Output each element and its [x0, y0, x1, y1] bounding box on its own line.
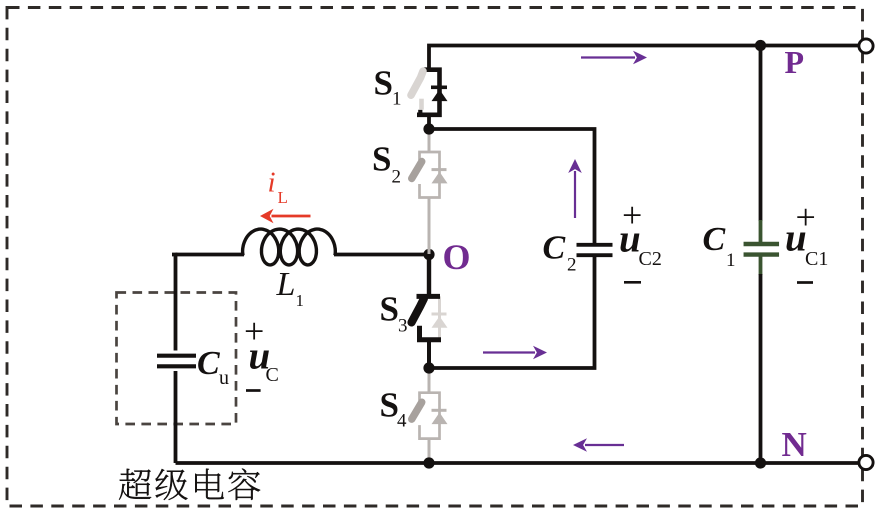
svg-text:i: i — [268, 166, 276, 198]
wire: inductor right lead to node O — [334, 253, 429, 257]
switch S2 (IGBT arm, off) — [420, 152, 440, 198]
svg-text:3: 3 — [398, 316, 408, 337]
wire: inductor left lead — [176, 253, 245, 257]
wire: left branch vertical upper (to Cu) — [172, 255, 176, 351]
wire: gray link overlay at node O — [428, 240, 431, 254]
capacitor C2 plates — [577, 243, 613, 247]
switch S4 (IGBT arm, off) — [420, 393, 440, 439]
node O dot — [423, 249, 434, 260]
junction dot between S3 and S4 — [423, 362, 434, 373]
junction dot bottom bus at C1 — [755, 457, 766, 468]
junction dot bottom bus at S4 — [423, 457, 434, 468]
current arrow top bus (right) — [581, 56, 635, 58]
svg-text:C1: C1 — [805, 248, 828, 270]
wire: junction A to C2 top (horizontal + vertical) — [429, 129, 595, 244]
svg-text:C: C — [197, 345, 220, 382]
wire: gray link S4 to bottom bus — [428, 439, 431, 464]
svg-text:N: N — [782, 425, 807, 464]
svg-text:1: 1 — [296, 291, 305, 310]
capacitor C1 plates — [744, 242, 780, 246]
svg-text:2: 2 — [567, 255, 577, 276]
wire: junction B to C2 bottom (horizontal + vertical) — [429, 255, 595, 368]
inductor current arrow iL (left, red) — [272, 215, 311, 218]
svg-text:u: u — [219, 367, 229, 389]
text 超级电容 (supercapacitor) — [119, 469, 260, 501]
inductor L1 coil — [243, 229, 336, 265]
wire: S1 top to P rail (top bus) — [429, 46, 858, 71]
current arrow bottom bus (left) — [585, 444, 624, 446]
wire: S3 bottom to junction B — [427, 340, 431, 368]
capacitor Cu plates — [157, 354, 196, 358]
junction dot P rail top — [755, 40, 766, 51]
wire: green stem above C1 plates — [759, 220, 763, 244]
svg-text:L: L — [276, 266, 296, 303]
wire: bottom bus (supercap to N terminal) — [176, 461, 859, 465]
svg-text:4: 4 — [397, 411, 407, 432]
wire: gray link S2 to node O — [428, 198, 431, 255]
svg-text:C: C — [703, 221, 726, 258]
switch S1 (IGBT arm, diode conducting) — [417, 70, 440, 115]
svg-text:u: u — [785, 217, 807, 260]
svg-text:2: 2 — [392, 167, 402, 188]
wire: left branch vertical lower (Cu to bottom bus) — [174, 371, 178, 463]
svg-text:C2: C2 — [639, 248, 662, 270]
current arrow C2 branch (up) — [574, 171, 576, 218]
svg-text:u: u — [619, 218, 641, 261]
svg-text:P: P — [785, 44, 805, 80]
svg-text:1: 1 — [392, 89, 402, 110]
svg-text:O: O — [443, 237, 471, 277]
wire: gray link junction A to S2 — [428, 129, 431, 152]
svg-text:S: S — [380, 290, 399, 329]
wire: C1 branch vertical lower (C1 to N) — [759, 274, 763, 463]
junction dot between S1 and S2 — [423, 123, 434, 134]
svg-text:C: C — [266, 364, 279, 386]
svg-text:1: 1 — [726, 250, 736, 271]
wire: green stem below C1 plates — [759, 255, 763, 275]
wire: node O to S3 — [427, 255, 431, 297]
terminal N (open circle) — [859, 455, 873, 469]
dashed supercapacitor box — [117, 293, 237, 425]
svg-text:S: S — [374, 64, 393, 103]
current arrow middle link (right) — [483, 351, 535, 353]
wire: C1 branch vertical upper (P to C1) — [759, 46, 763, 222]
wire: gray link junction B to S4 — [428, 368, 431, 393]
terminal P (open circle) — [859, 39, 873, 53]
svg-text:C: C — [543, 230, 566, 267]
svg-text:L: L — [278, 188, 288, 207]
switch S3 (IGBT arm, switch conducting) — [438, 296, 441, 337]
wire: S1 bottom to junction A — [427, 113, 431, 129]
svg-text:S: S — [372, 140, 391, 179]
